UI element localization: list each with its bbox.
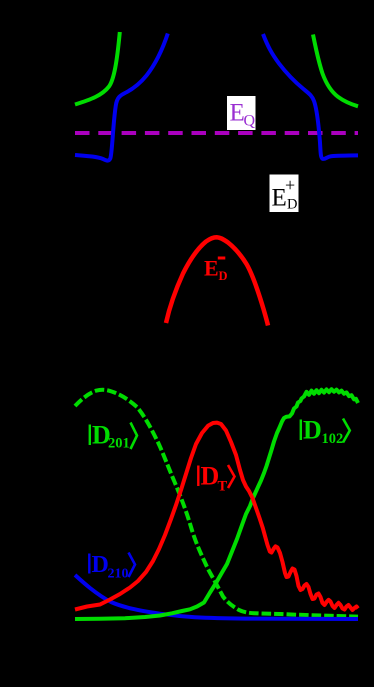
- svg-text:E: E: [204, 255, 219, 280]
- svg-text:T: T: [218, 479, 228, 495]
- svg-text:D: D: [219, 269, 228, 283]
- svg-text:Q: Q: [244, 113, 256, 130]
- svg-text:102: 102: [322, 431, 344, 447]
- svg-text:210: 210: [108, 567, 129, 582]
- svg-text:+: +: [285, 175, 295, 195]
- svg-text:E: E: [230, 100, 245, 127]
- svg-text:D: D: [201, 462, 220, 491]
- svg-text:D: D: [287, 197, 297, 213]
- svg-text:201: 201: [108, 436, 130, 452]
- svg-text:D: D: [303, 416, 322, 445]
- svg-text:D: D: [92, 552, 109, 578]
